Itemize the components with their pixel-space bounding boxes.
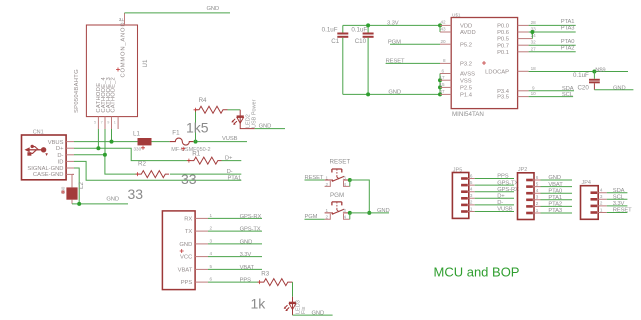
svg-text:PTA2: PTA2	[561, 46, 575, 52]
net SCL	[529, 92, 574, 98]
capacitor C20	[573, 72, 600, 92]
svg-text:VDD: VDD	[460, 24, 472, 30]
svg-text:F1: F1	[172, 129, 180, 136]
svg-text:PTA1: PTA1	[228, 176, 242, 182]
svg-text:RESET: RESET	[330, 158, 351, 165]
svg-text:3: 3	[536, 195, 539, 200]
junction U1 stub to VBUS	[110, 129, 114, 144]
svg-text:6: 6	[470, 173, 473, 178]
svg-text:15: 15	[440, 82, 446, 87]
svg-text:GPS-RX: GPS-RX	[240, 214, 262, 220]
svg-text:USB Power: USB Power	[252, 99, 258, 128]
svg-text:VCC: VCC	[180, 255, 192, 261]
svg-text:0.1uF: 0.1uF	[573, 72, 589, 79]
net RESET (JP4)	[607, 208, 632, 214]
wire RESET sw to GND vertical	[348, 178, 370, 213]
svg-text:1: 1	[210, 213, 213, 218]
svg-text:AVDD: AVDD	[460, 30, 476, 36]
net PTA2 (pin 27)	[529, 46, 576, 52]
svg-text:P3.5: P3.5	[497, 95, 509, 101]
net PPS	[208, 278, 260, 284]
wire R4 to LED2	[228, 109, 241, 111]
svg-text:2: 2	[600, 201, 603, 206]
svg-text:2: 2	[326, 215, 329, 220]
svg-text:2: 2	[326, 182, 329, 187]
U1 pin 2 stub (top)	[119, 13, 125, 25]
svg-text:330: 330	[134, 147, 142, 152]
svg-text:C10: C10	[355, 38, 367, 45]
svg-text:1: 1	[114, 121, 116, 125]
net GND rail (under caps)	[343, 90, 440, 97]
net D- (JP5)	[475, 200, 514, 206]
value 33 for R2	[128, 186, 144, 202]
svg-text:SCL: SCL	[562, 92, 574, 98]
svg-text:AVSS: AVSS	[460, 72, 475, 78]
svg-text:D+: D+	[497, 194, 505, 200]
svg-text:PTA0: PTA0	[561, 39, 575, 45]
svg-text:4: 4	[600, 188, 603, 193]
svg-text:D-: D-	[57, 153, 63, 159]
svg-text:PTA1: PTA1	[561, 19, 575, 25]
svg-text:GND: GND	[207, 6, 220, 12]
net GND (switches)	[348, 208, 390, 219]
JP5 pins	[461, 173, 475, 213]
net GPS-RX (JP5)	[475, 187, 519, 193]
net D+ (JP5)	[475, 194, 514, 200]
svg-text:3: 3	[210, 239, 213, 244]
svg-text:CASE-GND: CASE-GND	[33, 172, 64, 178]
net PTA3 (pin 33)	[529, 26, 576, 32]
svg-text:RX: RX	[184, 216, 192, 222]
svg-text:P0.7: P0.7	[497, 43, 509, 49]
GPS connector	[162, 211, 195, 290]
svg-text:PTA1: PTA1	[548, 195, 562, 201]
net D-	[170, 169, 241, 175]
svg-text:SP0504BAHTG: SP0504BAHTG	[74, 69, 80, 113]
net GND (GPS)	[208, 240, 262, 246]
svg-text:MF-USMF050-2: MF-USMF050-2	[171, 147, 210, 153]
svg-text:10: 10	[531, 91, 537, 96]
svg-text:PTA3: PTA3	[561, 26, 575, 32]
svg-text:LDOCAP: LDOCAP	[485, 69, 509, 75]
svg-text:VUSB: VUSB	[222, 136, 238, 142]
net VUSB (JP5)	[475, 207, 514, 213]
GPS pin stubs and numbers	[195, 213, 212, 282]
svg-text:4: 4	[344, 182, 347, 187]
svg-text:U$1: U$1	[452, 13, 461, 18]
svg-text:D-: D-	[497, 200, 503, 206]
svg-text:17: 17	[440, 75, 446, 80]
net SDA	[529, 86, 574, 92]
svg-text:0.1uF: 0.1uF	[322, 27, 338, 34]
net PPS (JP5)	[475, 174, 514, 180]
net GPS-TX (JP5)	[475, 180, 519, 186]
svg-text:PGM: PGM	[388, 39, 401, 45]
net 3.3V rail	[343, 21, 442, 28]
junction U1 stub to D-	[103, 129, 107, 157]
svg-text:P0.6: P0.6	[497, 30, 509, 36]
net GND (top wire from U1 pin2)	[125, 6, 231, 13]
svg-text:3: 3	[600, 194, 603, 199]
svg-text:PGM: PGM	[305, 214, 318, 220]
svg-text:1: 1	[600, 207, 603, 212]
pushbutton RESET	[325, 158, 351, 186]
net GND (JP2)	[541, 175, 573, 181]
svg-text:4: 4	[470, 187, 473, 192]
svg-text:MCU and BOP: MCU and BOP	[434, 265, 520, 280]
svg-text:GPS-TX: GPS-TX	[497, 180, 518, 186]
svg-text:GND: GND	[613, 85, 626, 91]
svg-text:GPS-TX: GPS-TX	[240, 227, 261, 233]
svg-text:2: 2	[210, 226, 213, 231]
svg-text:P0.1: P0.1	[497, 50, 509, 56]
svg-text:D-: D-	[227, 169, 233, 175]
net VBAT (GPS)	[208, 265, 262, 271]
svg-text:GND: GND	[312, 310, 325, 316]
svg-text:R4: R4	[199, 97, 207, 104]
svg-text:P5.2: P5.2	[460, 42, 472, 48]
svg-text:P1.4: P1.4	[460, 93, 473, 99]
svg-text:CATHODE_2: CATHODE_2	[111, 77, 117, 112]
U1 bottom pin stubs	[94, 117, 118, 129]
ferrite bead L2	[61, 174, 86, 204]
net PTA2 (JP2)	[541, 202, 573, 208]
net SCL (JP4)	[607, 195, 628, 201]
svg-text:PTA3: PTA3	[548, 208, 562, 214]
net VUSB	[194, 136, 248, 143]
svg-text:4: 4	[210, 251, 213, 256]
net RESET (to MCU)	[386, 59, 440, 65]
svg-text:RESET: RESET	[305, 175, 324, 181]
header JP2	[518, 167, 535, 219]
junction U1 stub to D+	[96, 129, 100, 150]
svg-text:GND: GND	[240, 240, 253, 246]
wire pin34 jog to PTA3	[530, 30, 534, 39]
svg-text:6: 6	[536, 175, 539, 180]
svg-text:SDA: SDA	[613, 188, 625, 194]
svg-text:C20: C20	[577, 84, 589, 91]
MCU U$1 MINI54TAN	[451, 13, 517, 119]
svg-text:GND: GND	[179, 242, 192, 248]
wire VDD/AVDD tie	[439, 25, 441, 32]
svg-text:1: 1	[536, 208, 539, 213]
svg-text:6: 6	[210, 277, 213, 282]
svg-text:28: 28	[531, 20, 537, 25]
svg-text:Fix: Fix	[301, 306, 307, 314]
svg-text:MINI54TAN: MINI54TAN	[452, 111, 484, 118]
svg-text:47: 47	[440, 89, 446, 94]
svg-text:SCL: SCL	[613, 195, 625, 201]
svg-text:5: 5	[94, 121, 96, 125]
MCU left pin stubs and numbers	[440, 20, 452, 95]
svg-text:GND: GND	[259, 124, 272, 130]
svg-text:4: 4	[536, 188, 539, 193]
svg-text:RESET: RESET	[386, 59, 405, 65]
svg-text:2: 2	[536, 201, 539, 206]
svg-text:GND: GND	[377, 208, 390, 214]
svg-text:42: 42	[441, 20, 447, 25]
svg-text:PPS: PPS	[181, 280, 193, 286]
svg-text:5: 5	[470, 180, 473, 185]
net D+	[222, 156, 242, 162]
net 3.3V (GPS)	[208, 252, 262, 258]
svg-text:PTA2: PTA2	[548, 202, 562, 208]
svg-text:VUSB: VUSB	[497, 207, 513, 213]
svg-text:N$9: N$9	[595, 67, 605, 73]
net GND (below CN1)	[72, 197, 128, 206]
net 3.3V (JP4)	[607, 201, 628, 207]
wire SIGNAL-GND down	[74, 168, 79, 204]
svg-text:SIGNAL-GND: SIGNAL-GND	[27, 166, 63, 172]
svg-text:33: 33	[181, 171, 197, 187]
svg-text:VBUS: VBUS	[48, 140, 64, 146]
wire D- row	[74, 155, 137, 174]
capacitor C10	[351, 25, 373, 94]
svg-text:P3.2: P3.2	[460, 62, 472, 68]
svg-text:2: 2	[470, 200, 473, 205]
svg-text:1k5: 1k5	[186, 120, 209, 136]
svg-text:P0.5: P0.5	[497, 37, 509, 43]
net GND (LED2)	[255, 124, 285, 130]
svg-text:33: 33	[128, 186, 144, 202]
net PTA0 (pin 32)	[529, 39, 576, 45]
svg-text:34: 34	[531, 33, 537, 38]
wire AVSS/VSS/P2.5/P1.4 tie	[438, 74, 442, 97]
wire L1 to F1	[152, 141, 170, 143]
svg-text:5: 5	[210, 264, 213, 269]
svg-text:1: 1	[470, 206, 473, 211]
svg-text:L2: L2	[78, 182, 85, 189]
JP4 pins	[591, 188, 607, 214]
svg-text:GPS-RX: GPS-RX	[497, 187, 519, 193]
svg-text:43: 43	[441, 27, 447, 32]
svg-text:VSS: VSS	[460, 78, 472, 84]
svg-text:PPS: PPS	[497, 174, 509, 180]
TVS diode array U1	[74, 17, 149, 117]
svg-text:3.3V: 3.3V	[613, 201, 625, 207]
svg-text:9: 9	[107, 121, 109, 125]
svg-text:9: 9	[532, 85, 535, 90]
net GND (LED3)	[293, 310, 333, 316]
svg-text:6: 6	[442, 68, 445, 73]
svg-text:1: 1	[326, 175, 329, 180]
JP2 pins	[526, 175, 540, 215]
svg-text:L1: L1	[133, 131, 140, 138]
svg-text:VBAT: VBAT	[178, 267, 193, 273]
svg-text:4: 4	[344, 215, 347, 220]
svg-text:3: 3	[343, 175, 346, 180]
svg-text:PPS: PPS	[240, 278, 252, 284]
svg-text:RESET: RESET	[613, 208, 632, 214]
net GPS-TX	[208, 227, 262, 233]
ferrite bead L1	[133, 131, 152, 152]
USB icon inside CN1	[25, 145, 48, 156]
LED LED2 USB Power	[231, 99, 257, 128]
wire D+ row	[74, 148, 189, 160]
fuse F1 MF-USMF050-2	[170, 129, 211, 153]
svg-text:1k: 1k	[251, 296, 267, 312]
svg-text:GND: GND	[548, 175, 561, 181]
svg-text:COMMON_ANODE: COMMON_ANODE	[121, 17, 127, 78]
net PTA0 (JP2)	[541, 188, 573, 194]
svg-text:D+: D+	[56, 146, 64, 152]
net PGM (label left)	[305, 214, 325, 220]
svg-text:P2.5: P2.5	[460, 86, 472, 92]
svg-text:TX: TX	[185, 229, 193, 235]
svg-text:18: 18	[531, 66, 537, 71]
svg-text:SDA: SDA	[562, 86, 574, 92]
resistor R3	[251, 271, 293, 312]
svg-text:7: 7	[101, 121, 103, 125]
svg-text:D+: D+	[225, 156, 233, 162]
svg-text:VBAT: VBAT	[240, 265, 255, 271]
CN1 pin stubs	[66, 142, 74, 175]
svg-text:0.1uF: 0.1uF	[351, 27, 367, 34]
net VBAT (JP2)	[541, 182, 573, 188]
svg-text:PGM: PGM	[330, 192, 344, 199]
pushbutton PGM	[325, 192, 350, 220]
net PTA3 (JP2)	[541, 208, 573, 214]
svg-text:GND: GND	[106, 197, 119, 203]
svg-text:3: 3	[470, 193, 473, 198]
svg-text:R3: R3	[261, 271, 269, 278]
wire R3 to LED3	[292, 282, 294, 297]
net GND (C20)	[594, 85, 633, 91]
svg-text:P0.0: P0.0	[497, 24, 509, 30]
capacitor C1	[322, 25, 349, 94]
title text MCU and BOP	[434, 265, 520, 280]
LED LED3 Fix	[284, 297, 307, 315]
svg-text:VBAT: VBAT	[548, 182, 563, 188]
svg-text:5: 5	[536, 181, 539, 186]
resistor R4	[186, 97, 228, 136]
svg-text:R1: R1	[192, 150, 200, 157]
wire VUSB up to R4	[195, 110, 197, 142]
resistor R2	[135, 161, 169, 178]
net GPS-RX	[208, 214, 262, 220]
resistor R1	[187, 150, 222, 164]
svg-text:C1: C1	[331, 38, 339, 45]
svg-text:32: 32	[531, 40, 537, 45]
svg-text:U1: U1	[142, 59, 149, 67]
svg-text:PTA0: PTA0	[548, 188, 562, 194]
header JP4	[581, 180, 599, 219]
svg-text:27: 27	[531, 46, 537, 51]
svg-text:R2: R2	[138, 161, 146, 168]
MCU right pin stubs and numbers	[518, 20, 537, 97]
net SDA (JP4)	[607, 188, 628, 194]
net RESET (label left)	[305, 175, 325, 181]
header JP5	[452, 168, 468, 219]
svg-text:1: 1	[326, 208, 329, 213]
svg-text:GND: GND	[388, 90, 401, 96]
svg-text:3.3V: 3.3V	[240, 252, 252, 258]
net PTA1 (JP2)	[541, 195, 573, 201]
svg-text:20: 20	[441, 39, 447, 44]
net PTA1 (pin 28)	[529, 19, 576, 25]
net PGM (to MCU)	[388, 39, 440, 45]
svg-text:2: 2	[119, 17, 122, 22]
wire ID to PTA1	[74, 161, 241, 181]
net N$9 (LDOCAP)	[529, 67, 628, 73]
svg-text:8: 8	[443, 58, 446, 63]
value 33 for R1	[181, 171, 197, 187]
svg-text:3: 3	[343, 208, 346, 213]
svg-text:3.3V: 3.3V	[387, 21, 399, 27]
wire VBUS/VUSB row	[74, 141, 138, 143]
svg-text:ID: ID	[58, 159, 64, 165]
USB connector CN1	[22, 130, 67, 180]
